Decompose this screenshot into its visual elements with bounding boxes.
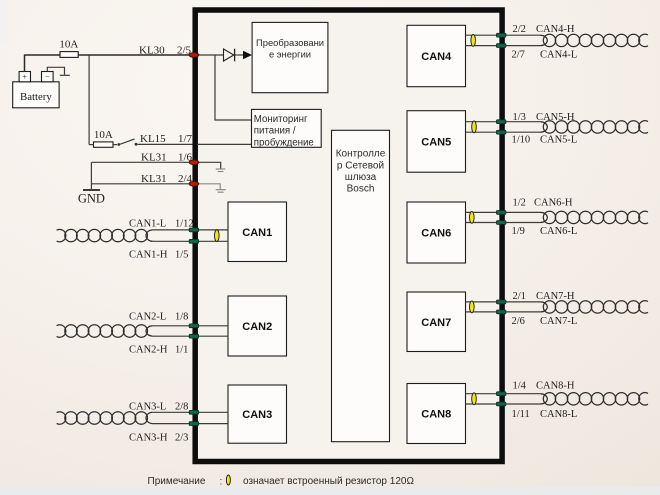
svg-text:CAN1: CAN1: [242, 227, 272, 239]
svg-text:Примечание: Примечание: [148, 476, 206, 487]
svg-text:+: +: [23, 73, 28, 82]
svg-text:1/1: 1/1: [175, 344, 188, 355]
svg-text:1/4: 1/4: [513, 381, 527, 392]
net label 1/2 CAN6-H: [513, 198, 573, 209]
svg-text:1/2: 1/2: [513, 198, 526, 209]
net label CAN1-H 1/5: [129, 250, 188, 261]
wire CAN6-H from enclosure: [505, 211, 541, 213]
svg-text:10A: 10A: [94, 129, 113, 141]
wire CAN3-L to enclosure: [153, 411, 194, 413]
switch S1 (ignition KL15): [113, 139, 137, 146]
svg-text:CAN2: CAN2: [242, 321, 272, 333]
svg-text:означает встроенный резистор 1: означает встроенный резистор 120Ω: [243, 476, 414, 487]
pin 2/2 (CAN4-H): [496, 33, 506, 37]
wire CAN4 inside top: [466, 34, 501, 36]
twisted pair CAN4: [541, 34, 649, 46]
svg-text:CAN7-H: CAN7-H: [536, 291, 575, 302]
svg-text:пробуждение: пробуждение: [254, 138, 314, 149]
ground (battery): [60, 74, 70, 76]
twisted pair CAN5: [541, 121, 649, 133]
wire CAN1-H to enclosure: [153, 240, 194, 242]
wire KL30 inside to diode: [197, 54, 224, 56]
pin 1/10 (CAN5-L): [496, 130, 506, 134]
wire CAN7 inside top: [466, 301, 501, 303]
wire CAN4 inside bottom: [466, 45, 501, 47]
svg-text:CAN8: CAN8: [421, 409, 451, 421]
wire CAN2 inside bottom: [197, 335, 228, 337]
net label CAN2-H 1/1: [129, 344, 188, 355]
svg-text:1/9: 1/9: [512, 226, 525, 237]
wire battery + riser: [24, 55, 26, 72]
net label 1/4 CAN8-H: [513, 381, 575, 392]
net label 2/1 CAN7-H: [513, 291, 575, 302]
ground GND: [78, 190, 105, 206]
svg-text:2/6: 2/6: [512, 316, 525, 327]
net label CAN1-L 1/12: [129, 219, 194, 230]
node KL15 1/7: [140, 133, 193, 145]
svg-text:Контролле: Контролле: [336, 149, 386, 160]
label gateway controller: [336, 149, 386, 195]
node KL31 1/6: [141, 152, 193, 164]
wire CAN6 inside top: [466, 211, 501, 213]
wire fuse F2 to switch: [89, 144, 93, 146]
net label 2/6 CAN7-L: [512, 316, 578, 327]
pin 1/12 (CAN1-L): [189, 228, 199, 232]
wire CAN1 inside top: [197, 229, 228, 231]
block: Bosch network gateway controller U1: [332, 130, 390, 441]
wire KL31 1/6 inside stub: [198, 162, 221, 169]
wire CAN7 inside bottom: [466, 311, 501, 313]
wire CAN7-H from enclosure: [505, 301, 541, 303]
wire CAN8-H from enclosure: [505, 393, 541, 395]
resistor RT (CAN4) 120 Ohm terminator: [471, 35, 476, 47]
net label 2/2 CAN4-H: [513, 24, 575, 35]
svg-text:шлюза: шлюза: [345, 172, 377, 183]
ground (pin 1/6 internal): [216, 169, 226, 172]
node KL30 2/5: [139, 44, 192, 56]
svg-text:1/10: 1/10: [512, 135, 531, 146]
wire KL15 inside to monitoring block: [197, 143, 252, 145]
block: transceiver CAN5: [407, 111, 466, 173]
wire KL31 2/4 inside stub: [198, 184, 220, 190]
pin 2/1 (CAN7-H): [496, 300, 506, 304]
net label CAN3-H 2/3: [129, 432, 188, 443]
pin 2/4 (KL31 ground): [189, 182, 199, 187]
svg-text:CAN7-L: CAN7-L: [540, 316, 577, 327]
block: transceiver CAN8: [407, 384, 466, 444]
wire KL31 1/6 to enclosure: [91, 161, 194, 163]
svg-text:1/5: 1/5: [175, 250, 188, 261]
svg-text:1/7: 1/7: [178, 133, 193, 145]
wire switch to enclosure (KL15): [137, 143, 194, 145]
svg-text:CAN7: CAN7: [421, 317, 451, 329]
block: power conversion (Преобразование энергии): [252, 22, 328, 92]
svg-text:CAN6-H: CAN6-H: [534, 198, 573, 209]
pin 2/3 (CAN3-H): [189, 422, 199, 426]
svg-text:CAN5-H: CAN5-H: [536, 112, 575, 123]
svg-text:2/8: 2/8: [175, 402, 188, 413]
wire CAN2-L to enclosure: [153, 325, 194, 327]
svg-text:CAN3: CAN3: [242, 409, 272, 421]
wire branch down to KL15 fuse: [88, 55, 90, 145]
pin 2/7 (CAN4-L): [496, 44, 506, 48]
net label 1/9 CAN6-L: [512, 226, 578, 237]
ground (pin 2/4 internal): [216, 190, 226, 193]
net label 1/3 CAN5-H: [513, 112, 575, 123]
wire branch to monitoring block: [215, 55, 252, 120]
twisted pair CAN1: [57, 229, 153, 241]
block: transceiver CAN7: [407, 292, 466, 352]
wire CAN5 inside top: [466, 121, 501, 123]
block: transceiver CAN1: [228, 202, 287, 262]
pin 1/9 (CAN6-L): [496, 221, 506, 225]
svg-text:2/1: 2/1: [513, 291, 526, 302]
svg-text:р Сетевой: р Сетевой: [337, 161, 384, 172]
pin 1/1 (CAN2-H): [189, 334, 199, 338]
block: transceiver CAN6: [407, 202, 466, 263]
wire CAN6-L from enclosure: [505, 222, 541, 224]
wire CAN2 inside top: [197, 325, 228, 327]
pin 2/6 (CAN7-L): [496, 310, 506, 314]
diode D1: [224, 49, 253, 62]
wire CAN2-H to enclosure: [153, 335, 194, 337]
wire CAN1 inside bottom: [197, 240, 228, 242]
wire CAN8 inside bottom: [466, 403, 501, 405]
wire CAN7-L from enclosure: [505, 311, 541, 313]
twisted pair CAN2: [57, 325, 153, 337]
svg-text:CAN5: CAN5: [421, 136, 451, 148]
resistor RT (CAN5) 120 Ohm terminator: [472, 121, 477, 133]
svg-text:GND: GND: [78, 192, 105, 206]
svg-text:2/3: 2/3: [175, 432, 188, 443]
svg-text:CAN4-L: CAN4-L: [540, 50, 577, 61]
svg-text:CAN8-L: CAN8-L: [540, 409, 577, 420]
svg-text:KL30: KL30: [139, 44, 165, 56]
svg-text:CAN2-H: CAN2-H: [129, 344, 168, 355]
svg-text:CAN1-L: CAN1-L: [129, 219, 166, 230]
wire CAN3 inside bottom: [197, 423, 228, 425]
svg-text:KL31: KL31: [141, 173, 167, 185]
wire CAN5-H from enclosure: [505, 121, 541, 123]
twisted pair CAN8: [541, 393, 649, 405]
svg-text:CAN4: CAN4: [421, 51, 452, 63]
block: transceiver CAN4: [407, 25, 466, 86]
wire CAN4-H from enclosure: [505, 34, 541, 36]
wire CAN8 inside top: [466, 393, 501, 395]
svg-text:1/12: 1/12: [175, 219, 194, 230]
wire KL30 fuse to enclosure: [78, 54, 194, 56]
fuse F2 10A: [94, 129, 114, 147]
pin 1/4 (CAN8-H): [496, 392, 506, 396]
svg-text:2/7: 2/7: [512, 50, 525, 61]
svg-text::: :: [220, 477, 223, 488]
pin 1/11 (CAN8-L): [496, 402, 506, 406]
pin 2/5 (KL30 supply): [189, 53, 199, 58]
wire battery - to chassis ground: [47, 67, 64, 75]
svg-text:2/2: 2/2: [513, 24, 526, 35]
wire CAN1-L to enclosure: [153, 229, 194, 231]
block: power monitoring / wake-up (Мониторинг питания): [252, 109, 322, 147]
resistor RT1 (CAN1) 120 Ohm terminator: [215, 230, 220, 242]
wire CAN3 inside top: [197, 411, 228, 413]
net label CAN2-L 1/8: [129, 312, 188, 323]
svg-text:е энергии: е энергии: [269, 49, 311, 60]
resistor RT (CAN6) 120 Ohm terminator: [470, 212, 475, 224]
pin 1/3 (CAN5-H): [496, 120, 506, 124]
resistor RT (CAN7) 120 Ohm terminator: [470, 301, 475, 313]
svg-text:CAN5-L: CAN5-L: [540, 135, 577, 146]
label power conversion: [256, 37, 324, 60]
fuse F1 10A: [59, 39, 78, 58]
svg-text:CAN2-L: CAN2-L: [129, 312, 166, 323]
pin 1/6 (KL31 ground): [189, 160, 199, 165]
wire CAN5 inside bottom: [466, 131, 501, 133]
block: transceiver CAN3: [228, 385, 287, 443]
twisted pair CAN7: [541, 301, 649, 313]
svg-text:CAN3-H: CAN3-H: [129, 432, 168, 443]
svg-text:Мониторинг: Мониторинг: [254, 114, 308, 125]
net label 1/11 CAN8-L: [512, 409, 578, 420]
wire CAN4-L from enclosure: [505, 45, 541, 47]
net label 2/7 CAN4-L: [512, 50, 578, 61]
svg-text:Bosch: Bosch: [347, 183, 375, 194]
block: transceiver CAN2: [228, 296, 287, 356]
svg-text:1/11: 1/11: [512, 409, 530, 420]
pin 2/8 (CAN3-L): [189, 410, 199, 414]
svg-text:CAN3-L: CAN3-L: [129, 402, 166, 413]
svg-text:CAN1-H: CAN1-H: [129, 250, 168, 261]
wire CAN5-L from enclosure: [505, 131, 541, 133]
svg-text:10A: 10A: [59, 39, 78, 51]
twisted pair CAN6: [541, 211, 649, 223]
net label 1/10 CAN5-L: [512, 135, 578, 146]
svg-text:Battery: Battery: [20, 91, 52, 103]
svg-text:CAN6: CAN6: [421, 228, 451, 240]
note: 120 Ohm terminator legend: [148, 475, 415, 488]
wire CAN6 inside bottom: [466, 222, 501, 224]
node KL31 2/4: [141, 173, 193, 185]
svg-text:−: −: [45, 72, 50, 81]
wire KL31 2/4 to enclosure: [91, 183, 194, 185]
svg-text:CAN4-H: CAN4-H: [536, 24, 575, 35]
net label CAN3-L 2/8: [129, 402, 188, 413]
svg-text:1/8: 1/8: [175, 312, 188, 323]
wire KL31 ground drop: [90, 162, 92, 189]
svg-text:CAN6-L: CAN6-L: [540, 226, 577, 237]
resistor RT (CAN8) 120 Ohm terminator: [472, 393, 477, 405]
battery B1: [13, 72, 59, 108]
label power monitoring: [254, 114, 314, 149]
wire CAN8-L from enclosure: [505, 403, 541, 405]
gateway module enclosure: [195, 10, 502, 462]
svg-text:CAN8-H: CAN8-H: [536, 381, 575, 392]
svg-text:питания /: питания /: [254, 126, 296, 137]
svg-text:Преобразовани: Преобразовани: [256, 37, 324, 48]
svg-text:1/3: 1/3: [513, 112, 526, 123]
pin 1/8 (CAN2-L): [189, 324, 199, 328]
twisted pair CAN3: [57, 412, 153, 424]
svg-text:KL31: KL31: [141, 152, 167, 164]
wire battery to fuse F1: [25, 54, 61, 56]
svg-text:KL15: KL15: [140, 133, 166, 145]
wire CAN3-H to enclosure: [153, 423, 194, 425]
pin 1/2 (CAN6-H): [496, 211, 506, 215]
pin 1/5 (CAN1-H): [189, 239, 199, 243]
